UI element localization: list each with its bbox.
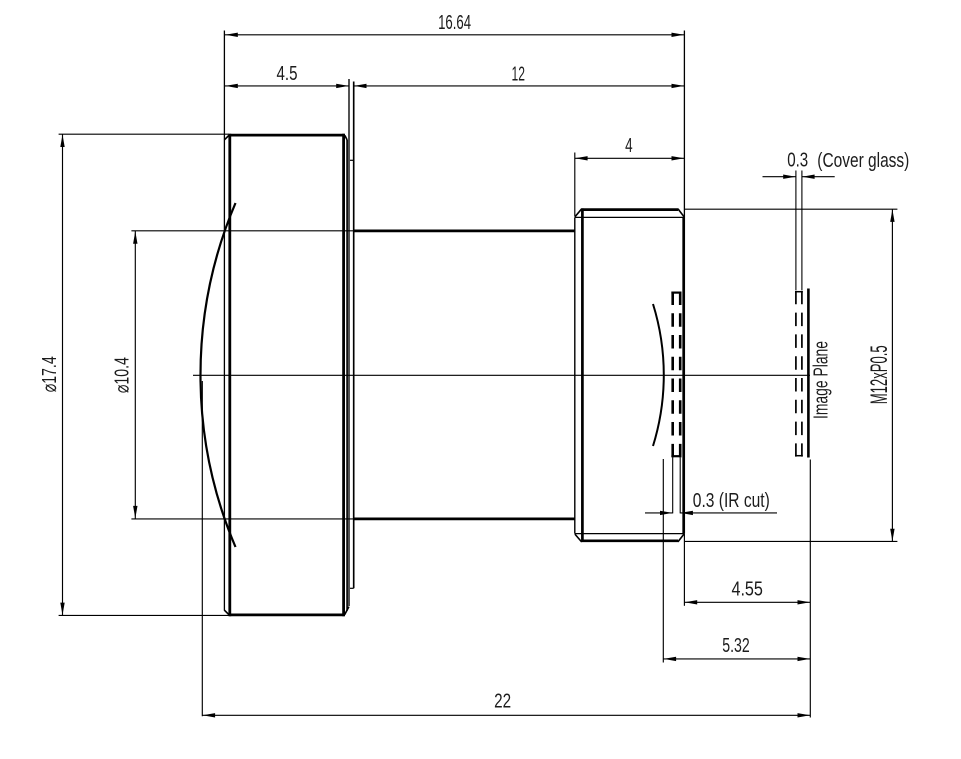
centerline: [193, 374, 810, 376]
dim 0.3 cover glass: [763, 176, 796, 178]
rear threaded section M12: [582, 208, 679, 211]
svg-text:16.64: 16.64: [438, 11, 471, 34]
svg-text:4.5: 4.5: [277, 62, 298, 85]
IR cut filter (dashed): [671, 292, 674, 458]
front barrel rim lines: [223, 31, 225, 611]
svg-text:⌀17.4: ⌀17.4: [38, 356, 61, 392]
svg-text:0.3 (IR cut): 0.3 (IR cut): [693, 489, 770, 512]
image plane line: [807, 289, 810, 458]
dim 5.32: [663, 658, 810, 660]
dim dia 17.4: [62, 134, 64, 615]
svg-text:5.32: 5.32: [722, 634, 750, 657]
rear lens surface arc: [653, 304, 664, 446]
dim M12xP0.5: [685, 208, 898, 210]
dim 22: [202, 714, 810, 716]
svg-text:4: 4: [625, 134, 633, 157]
dim 12: [354, 85, 685, 87]
dim 16.64: [225, 34, 684, 36]
middle cylinder (d10.4): [354, 230, 576, 233]
svg-text:0.3: 0.3: [787, 149, 808, 172]
svg-text:22: 22: [494, 690, 511, 713]
rear step of front barrel: [348, 79, 350, 606]
front barrel chamfers: [224, 135, 229, 139]
thread chamfers: [575, 209, 582, 217]
svg-text:12: 12: [511, 62, 525, 85]
cover glass (dashed): [795, 291, 797, 457]
svg-text:M12xP0.5: M12xP0.5: [866, 345, 893, 404]
front lens surface arc: [200, 203, 235, 547]
svg-text:Image Plane: Image Plane: [810, 341, 833, 419]
dim dia 10.4: [134, 231, 136, 519]
dim 4: [575, 157, 684, 159]
svg-text:4.55: 4.55: [731, 578, 763, 601]
front barrel outline: [229, 134, 344, 137]
dim 4.5: [225, 85, 349, 87]
svg-text:⌀10.4: ⌀10.4: [111, 357, 134, 393]
dim 0.3 IR cut: [645, 512, 673, 514]
dim 4.55: [684, 601, 810, 603]
svg-text:(Cover glass): (Cover glass): [817, 149, 909, 172]
